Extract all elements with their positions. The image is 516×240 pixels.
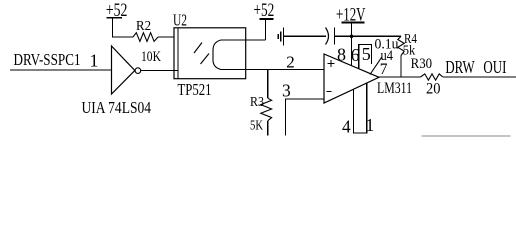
light arrows <box>194 43 202 54</box>
capacitor straight plate <box>334 28 336 45</box>
inverter bubble <box>135 68 141 74</box>
junction dot <box>350 35 354 39</box>
optocoupler U2 box <box>174 28 246 79</box>
svg-text:DRW: DRW <box>445 57 474 77</box>
svg-text:UIA 74LS04: UIA 74LS04 <box>82 98 152 117</box>
svg-text:5K: 5K <box>250 119 263 134</box>
LED bar inside optocoupler <box>177 28 179 79</box>
wire pin 3 <box>286 99 324 136</box>
svg-text:R30: R30 <box>411 56 433 72</box>
plus input mark <box>328 63 335 65</box>
svg-text:20: 20 <box>426 81 441 98</box>
comparator LM311 triangle <box>324 54 379 103</box>
wire +12V rail to R4 <box>352 35 402 37</box>
svg-text:5: 5 <box>362 44 371 64</box>
svg-text:U2: U2 <box>173 10 187 29</box>
minus input mark <box>327 91 332 93</box>
pins 4 and 1 wires <box>354 83 367 133</box>
wire to output node <box>443 76 516 78</box>
svg-text:7: 7 <box>380 61 388 78</box>
svg-text:4: 4 <box>342 116 351 136</box>
svg-text:3: 3 <box>282 81 291 101</box>
wire comparator output <box>379 76 421 78</box>
wire inverter output to optocoupler <box>141 70 178 72</box>
wire pin 2 (opto output to comparator +) <box>246 69 324 71</box>
inverter U1A triangle <box>112 46 135 94</box>
svg-text:OUI: OUI <box>483 57 506 77</box>
wire input to inverter <box>10 69 111 71</box>
svg-text:R3: R3 <box>250 95 264 110</box>
svg-text:2: 2 <box>286 53 295 72</box>
ground (rotated) <box>284 35 326 37</box>
wire bottom-right rule <box>421 135 510 137</box>
svg-text:1: 1 <box>90 51 99 71</box>
phototransistor shape <box>213 40 246 70</box>
wire pins 5-6 tie <box>359 45 372 69</box>
svg-text:10K: 10K <box>141 49 161 65</box>
svg-text:1: 1 <box>366 115 375 135</box>
svg-text:TP521: TP521 <box>178 80 212 99</box>
capacitor polarized (curved plate) <box>326 28 329 45</box>
resistor R4 <box>398 36 404 55</box>
svg-text:DRV-SSPC1: DRV-SSPC1 <box>14 50 81 69</box>
svg-text:6: 6 <box>351 45 360 65</box>
svg-text:LM311: LM311 <box>377 80 412 97</box>
wire pin5 diagonal to output <box>370 57 382 74</box>
